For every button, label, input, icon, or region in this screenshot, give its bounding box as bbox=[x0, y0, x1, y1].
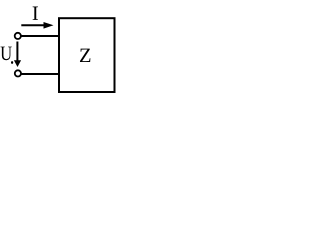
voltage arrow U bbox=[14, 42, 21, 68]
label Z bbox=[80, 49, 90, 62]
terminal bottom bbox=[15, 70, 21, 76]
label I bbox=[33, 7, 38, 20]
terminal top bbox=[15, 33, 21, 39]
label U bbox=[1, 47, 12, 61]
wire top bbox=[21, 35, 59, 37]
current arrow I bbox=[21, 22, 53, 29]
U bottom-right serif artifact bbox=[11, 61, 13, 64]
impedance box Z bbox=[59, 18, 115, 92]
wire bottom bbox=[21, 73, 59, 75]
